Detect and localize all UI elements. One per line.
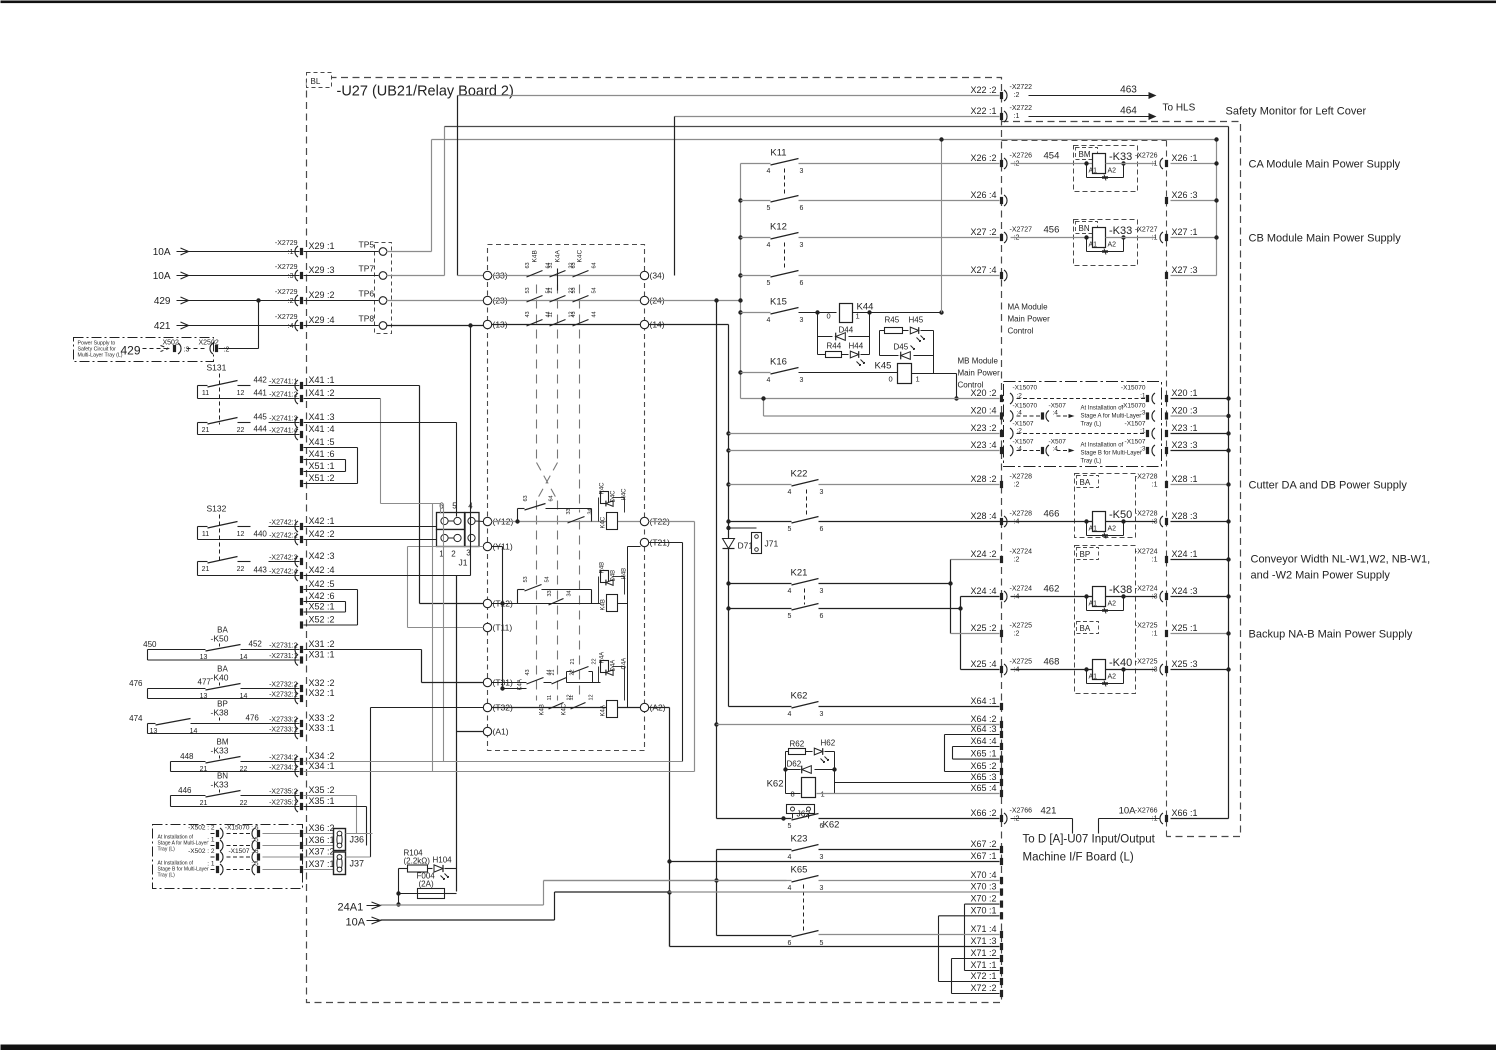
svg-text:K15: K15 xyxy=(770,297,787,308)
svg-text:-K38: -K38 xyxy=(1109,584,1132,596)
svg-text:K4B: K4B xyxy=(540,704,546,715)
svg-text:-X1507: -X1507 xyxy=(1125,439,1146,446)
wire T32 left riser down to J37 xyxy=(371,707,484,709)
svg-text:D4A: D4A xyxy=(611,660,617,672)
svg-text::4: :4 xyxy=(1014,519,1020,526)
K4B contact 11-12 on T32 xyxy=(549,703,564,710)
svg-text:-X2731:1: -X2731:1 xyxy=(269,653,298,660)
svg-text:22: 22 xyxy=(237,427,245,434)
svg-text:TP6: TP6 xyxy=(359,289,375,299)
wire X42:4 riser to 421 row xyxy=(304,575,471,577)
svg-text:R44: R44 xyxy=(827,342,842,351)
row X65:2 xyxy=(945,771,1000,773)
svg-text:K45: K45 xyxy=(875,361,892,372)
svg-text:11: 11 xyxy=(569,695,575,701)
svg-text:X70 :3: X70 :3 xyxy=(970,882,996,892)
svg-text:454: 454 xyxy=(1044,151,1060,162)
svg-text:4: 4 xyxy=(767,377,771,384)
svg-text:4: 4 xyxy=(767,242,771,249)
svg-text:-X502 : 2: -X502 : 2 xyxy=(188,848,215,855)
wire X42:2 to J1 pin2 xyxy=(304,539,437,541)
bus A2 rail dots xyxy=(667,859,671,863)
svg-text:-X2725: -X2725 xyxy=(1135,623,1158,630)
svg-text:X28 :3: X28 :3 xyxy=(1172,511,1198,521)
svg-text:CA Module Main Power Supply: CA Module Main Power Supply xyxy=(1249,159,1401,171)
svg-text:-X2741:3: -X2741:3 xyxy=(269,416,298,423)
row X66:2 jumper J62 contact K62 5-6 xyxy=(717,818,792,820)
svg-text:(A1): (A1) xyxy=(493,727,509,737)
svg-text:K16: K16 xyxy=(770,357,787,368)
svg-text:-X15070: -X15070 xyxy=(1013,385,1038,392)
svg-text:X32 :2: X32 :2 xyxy=(309,678,335,688)
svg-text:D44: D44 xyxy=(839,326,854,335)
wire X22:1 row from node 34 riser xyxy=(675,116,1000,118)
bus x1216 X26/X27 group xyxy=(1216,140,1218,276)
svg-text:X20 :4: X20 :4 xyxy=(970,406,996,416)
svg-text:21: 21 xyxy=(550,669,556,675)
svg-text:21: 21 xyxy=(202,427,210,434)
svg-text:-X15070: -X15070 xyxy=(1013,403,1038,410)
svg-text:4: 4 xyxy=(767,168,771,175)
svg-text:-X2742:2: -X2742:2 xyxy=(269,533,298,540)
svg-text:-X2741:1: -X2741:1 xyxy=(269,379,298,386)
connector X20:1 xyxy=(1165,395,1168,402)
svg-text:X37 :1: X37 :1 xyxy=(309,859,335,869)
contact K15 4-3 xyxy=(738,298,742,302)
svg-text:-X1507: -X1507 xyxy=(1013,421,1034,428)
svg-text:X26 :3: X26 :3 xyxy=(1172,190,1198,200)
coil box BM -K33 xyxy=(1074,146,1138,192)
svg-text:Main Power: Main Power xyxy=(958,369,1001,378)
mechanical linkage dashed verticals xyxy=(536,285,538,463)
riser X22:2 to node 33 xyxy=(457,96,459,276)
linkage crossing xyxy=(537,463,558,501)
svg-text:-K38: -K38 xyxy=(211,708,229,718)
svg-text:X23 :4: X23 :4 xyxy=(970,440,996,450)
svg-text:X26 :4: X26 :4 xyxy=(970,190,996,200)
svg-text:BN: BN xyxy=(1079,224,1090,233)
svg-text:X65 :1: X65 :1 xyxy=(970,749,996,759)
svg-text:448: 448 xyxy=(180,752,194,761)
svg-text:4: 4 xyxy=(767,317,771,324)
svg-text::1: :1 xyxy=(1152,161,1158,168)
svg-text:63: 63 xyxy=(525,262,531,268)
connector X26:1 xyxy=(1160,158,1163,169)
row A1 xyxy=(483,727,491,735)
row X23:4 xyxy=(726,448,730,452)
row X71:2 xyxy=(952,958,1000,960)
svg-text:3: 3 xyxy=(820,885,824,892)
svg-text:442: 442 xyxy=(254,376,268,385)
outer dashed boundary right xyxy=(1002,122,1241,837)
top rail y139 to right bus xyxy=(432,139,1217,141)
svg-text:-X2742:3: -X2742:3 xyxy=(269,555,298,562)
top rail y126 to far right bus xyxy=(445,126,1229,128)
bus 24-row down to X66:2 xyxy=(714,298,718,302)
svg-text:X66 :2: X66 :2 xyxy=(970,808,996,818)
svg-text:4: 4 xyxy=(788,588,792,595)
svg-text:54: 54 xyxy=(545,576,551,582)
contact K11 4-3 row X26:2 xyxy=(741,163,771,165)
svg-text:S132: S132 xyxy=(207,504,227,514)
K4A coil cluster R4A D4A C4A xyxy=(601,661,609,673)
svg-text:-X2742:4: -X2742:4 xyxy=(269,569,298,576)
K4C contact 43-44 xyxy=(573,320,589,327)
contact row 23-24 xyxy=(387,300,484,302)
svg-text:X42 :4: X42 :4 xyxy=(309,565,335,575)
wire X66:1 stub down xyxy=(1099,818,1161,820)
wire T11 left from riser xyxy=(408,627,484,629)
svg-text:D62: D62 xyxy=(787,760,802,769)
row T31 xyxy=(483,678,491,686)
jumper J36 xyxy=(334,829,346,851)
svg-text:-X502 : 2: -X502 : 2 xyxy=(188,825,215,832)
svg-text:X71 :1: X71 :1 xyxy=(970,960,996,970)
test point dashed box xyxy=(375,243,392,334)
svg-text:53: 53 xyxy=(523,576,529,582)
svg-text:H104: H104 xyxy=(433,856,453,865)
svg-text:-K33: -K33 xyxy=(1109,225,1132,237)
svg-text:-X507: -X507 xyxy=(1049,403,1067,410)
svg-text:BA: BA xyxy=(1080,478,1091,487)
svg-text:-K33: -K33 xyxy=(211,746,229,756)
K4B contact 43-44 xyxy=(527,320,543,327)
svg-text:X27 :2: X27 :2 xyxy=(970,227,996,237)
svg-text:X37 :2: X37 :2 xyxy=(309,847,335,857)
svg-text:X51 :2: X51 :2 xyxy=(309,473,335,483)
svg-text:33: 33 xyxy=(566,508,572,514)
svg-text:421: 421 xyxy=(154,321,171,332)
wire T22 down-right bus xyxy=(649,521,695,523)
svg-text:BP: BP xyxy=(1080,550,1091,559)
svg-text:31: 31 xyxy=(548,262,554,268)
svg-text:-X507: -X507 xyxy=(1049,439,1067,446)
svg-text:K11: K11 xyxy=(770,148,786,159)
svg-text:X29 :4: X29 :4 xyxy=(309,315,335,325)
svg-text:-X2722: -X2722 xyxy=(1010,105,1033,112)
contact K12 5-6 row X27:4 xyxy=(738,273,742,277)
row Y12 xyxy=(483,517,491,525)
svg-text:(34): (34) xyxy=(650,271,665,281)
svg-text:Safety Monitor for Left Cover: Safety Monitor for Left Cover xyxy=(1226,106,1367,118)
svg-text:K62: K62 xyxy=(823,820,840,831)
row X67:1 xyxy=(670,861,1000,863)
svg-text:21: 21 xyxy=(548,287,554,293)
node (23) xyxy=(483,296,491,304)
svg-text:-X2725: -X2725 xyxy=(1135,659,1158,666)
svg-text:X35 :1: X35 :1 xyxy=(309,796,335,806)
svg-text:K4C: K4C xyxy=(562,703,568,715)
svg-text:X20 :1: X20 :1 xyxy=(1172,388,1198,398)
svg-text:A1: A1 xyxy=(1089,168,1098,175)
svg-text:53: 53 xyxy=(525,287,531,293)
svg-text:-X2724: -X2724 xyxy=(1010,549,1033,556)
row Y11 xyxy=(483,542,491,550)
svg-text:TP7: TP7 xyxy=(359,264,375,274)
K4A contact 21-22 on T31 xyxy=(552,678,567,685)
svg-text:456: 456 xyxy=(1044,225,1060,236)
svg-text:0: 0 xyxy=(827,312,831,321)
svg-text:466: 466 xyxy=(1044,509,1060,520)
row X70:1 xyxy=(939,915,1000,917)
row T12 xyxy=(483,599,491,607)
svg-text:44: 44 xyxy=(592,311,598,317)
svg-text:X22 :2: X22 :2 xyxy=(970,85,996,95)
K4A contact 21-22 upper bump xyxy=(566,672,568,683)
svg-text:J37: J37 xyxy=(350,858,365,868)
svg-text:-X2734:2: -X2734:2 xyxy=(269,755,298,762)
svg-text:468: 468 xyxy=(1044,657,1060,668)
svg-text:D4C: D4C xyxy=(611,490,617,503)
row X51:2 xyxy=(300,480,303,487)
K4C contact 63-64 xyxy=(573,271,589,278)
svg-text:-X2726: -X2726 xyxy=(1010,153,1033,160)
svg-text:445: 445 xyxy=(254,413,268,422)
svg-text:2: 2 xyxy=(451,550,456,559)
coil box BP/BA K38 K40 xyxy=(1075,546,1136,694)
svg-text:450: 450 xyxy=(143,640,157,649)
svg-text:22: 22 xyxy=(237,566,245,573)
svg-text:BM: BM xyxy=(1079,150,1091,159)
svg-text:10A: 10A xyxy=(1119,806,1137,817)
contact S131 21-22 row X41:3 xyxy=(198,422,208,424)
K4A contact 43-44 on T31 xyxy=(527,678,544,685)
svg-text:A2: A2 xyxy=(1108,601,1117,608)
svg-text:K4B: K4B xyxy=(601,599,607,610)
svg-text::1: :1 xyxy=(1014,113,1020,120)
svg-text:Main Power: Main Power xyxy=(1008,315,1051,324)
svg-text::4: :4 xyxy=(1053,410,1059,417)
coil K50 xyxy=(1084,519,1088,523)
svg-text:X24 :2: X24 :2 xyxy=(970,549,996,559)
svg-text:5: 5 xyxy=(788,613,792,620)
svg-text:6: 6 xyxy=(800,205,804,212)
wire TP7 up to top rail xyxy=(387,275,445,277)
svg-text:-X2732:2: -X2732:2 xyxy=(269,682,298,689)
row X41:6 xyxy=(300,456,303,463)
row X72:1 xyxy=(939,981,1000,983)
riser K45 to X20:2 xyxy=(934,373,957,375)
contact row 33-34 xyxy=(458,275,484,277)
svg-text:X64 :2: X64 :2 xyxy=(970,714,996,724)
row X71:1 xyxy=(965,970,1000,972)
node (T22) xyxy=(640,517,648,525)
svg-text:A1: A1 xyxy=(1089,242,1098,249)
svg-text:J1: J1 xyxy=(459,558,468,568)
MA module dashed box xyxy=(1002,140,1167,142)
K4C contact 33-34 on Y12 xyxy=(568,517,585,524)
svg-text:R4B: R4B xyxy=(600,562,606,574)
svg-text:K21: K21 xyxy=(791,568,808,579)
svg-text:K22: K22 xyxy=(791,469,808,480)
svg-text:-K50: -K50 xyxy=(211,634,229,644)
svg-text:(T11): (T11) xyxy=(493,623,513,633)
svg-text:K4A: K4A xyxy=(518,679,524,690)
row X25:2 xyxy=(951,633,1000,635)
row X41:5 xyxy=(300,444,303,451)
node (33) xyxy=(483,271,491,279)
svg-text:421: 421 xyxy=(1041,806,1057,817)
svg-text:(2.2kΩ): (2.2kΩ) xyxy=(404,857,431,866)
svg-text:-X2731:2: -X2731:2 xyxy=(269,643,298,650)
svg-text:X26 :1: X26 :1 xyxy=(1172,153,1198,163)
svg-text:X67 :2: X67 :2 xyxy=(970,839,996,849)
svg-text:6: 6 xyxy=(820,613,824,620)
svg-text:446: 446 xyxy=(178,786,192,795)
contact K65 6-5 row X71:4 xyxy=(717,935,792,937)
svg-text:X24 :4: X24 :4 xyxy=(970,586,996,596)
svg-text:X70 :2: X70 :2 xyxy=(970,894,996,904)
output wire 463 with arrow xyxy=(1029,95,1149,97)
svg-text:TP8: TP8 xyxy=(359,314,375,324)
svg-text:X31 :2: X31 :2 xyxy=(309,639,335,649)
svg-text:3: 3 xyxy=(800,377,804,384)
row X24:4 coil K38 xyxy=(961,596,1000,598)
svg-text:R4A: R4A xyxy=(600,652,606,664)
svg-text:-X2735:2: -X2735:2 xyxy=(269,789,298,796)
svg-text:-X2766: -X2766 xyxy=(1010,808,1033,815)
contact K22 5-6 row X28:4 xyxy=(726,519,730,523)
row X72:2 xyxy=(952,993,1000,995)
contact K21 4-3 xyxy=(726,581,730,585)
svg-text:-X2741:4: -X2741:4 xyxy=(269,428,298,435)
page top border bar xyxy=(1,1,1496,4)
wire node14 to right bus xyxy=(649,324,729,326)
svg-text:43: 43 xyxy=(525,669,531,675)
svg-text:5: 5 xyxy=(788,823,792,830)
svg-text:429: 429 xyxy=(154,296,171,307)
row X65:1 xyxy=(953,758,1000,760)
contact K16 4-3 xyxy=(738,370,742,374)
K4B coil cluster R4B D4B H4B xyxy=(601,571,609,583)
svg-text:X25 :1: X25 :1 xyxy=(1172,623,1198,633)
svg-text:A1: A1 xyxy=(1089,674,1098,681)
svg-text:476: 476 xyxy=(246,714,260,723)
svg-text:MA Module: MA Module xyxy=(1008,303,1049,312)
svg-text:X41 :6: X41 :6 xyxy=(309,449,335,459)
contact S131 11-12 row X41:1 xyxy=(198,385,208,387)
svg-text:11: 11 xyxy=(202,531,209,538)
wire 429 box to 429 row xyxy=(219,348,259,350)
row X64:4 xyxy=(953,746,1000,748)
contact K62 4-3 row X64:1 xyxy=(729,706,792,708)
svg-text:X27 :3: X27 :3 xyxy=(1172,265,1198,275)
node (24) xyxy=(640,296,648,304)
svg-text:At Installation of: At Installation of xyxy=(1081,406,1124,412)
svg-text:-X2732:1: -X2732:1 xyxy=(269,692,298,699)
connector J1 xyxy=(437,513,465,530)
svg-text:3: 3 xyxy=(820,588,824,595)
wire T21 down bus xyxy=(649,542,683,544)
svg-text::1: :1 xyxy=(1152,235,1158,242)
output wire 464 with arrow xyxy=(1029,116,1149,118)
svg-text:X28 :2: X28 :2 xyxy=(970,474,996,484)
wire X34:2 to T22 bus xyxy=(304,761,683,763)
K4B contact 33-34 on T12 xyxy=(549,599,564,606)
svg-text:-X2729: -X2729 xyxy=(275,264,298,271)
svg-text:5: 5 xyxy=(767,205,771,212)
svg-text:476: 476 xyxy=(129,679,143,688)
svg-text:-X1507: -X1507 xyxy=(1125,421,1146,428)
svg-text:X36 :2: X36 :2 xyxy=(309,823,335,833)
svg-text:-X1507: -X1507 xyxy=(1013,439,1034,446)
svg-text:4: 4 xyxy=(788,489,792,496)
svg-text:X70 :1: X70 :1 xyxy=(970,905,996,915)
svg-text:34: 34 xyxy=(588,508,594,514)
svg-text:X28 :1: X28 :1 xyxy=(1172,474,1198,484)
svg-text:H45: H45 xyxy=(909,316,924,325)
wire T12 left riser from X41:1 xyxy=(420,603,484,605)
svg-text:-K50: -K50 xyxy=(1109,509,1132,521)
svg-text:-X2728: -X2728 xyxy=(1010,474,1033,481)
svg-text:-X2741:2: -X2741:2 xyxy=(269,392,298,399)
connector X502 :3 xyxy=(143,346,169,352)
svg-text:444: 444 xyxy=(254,425,268,434)
diode D71 on bus xyxy=(726,526,730,530)
svg-text:-X2727: -X2727 xyxy=(1010,227,1033,234)
svg-text:X71 :4: X71 :4 xyxy=(970,924,996,934)
wire X42:1 to J1 pin1 xyxy=(304,526,437,528)
svg-text::4: :4 xyxy=(1053,446,1059,453)
contact S132 11-12 row X42:1 xyxy=(198,526,208,528)
svg-text:-X2728: -X2728 xyxy=(1135,474,1158,481)
svg-text:X22 :1: X22 :1 xyxy=(970,106,996,116)
svg-text:X70 :4: X70 :4 xyxy=(970,870,996,880)
row X25:4 coil K40 xyxy=(961,669,1000,671)
svg-text:CB Module Main Power Supply: CB Module Main Power Supply xyxy=(1249,233,1402,245)
K4C coil cluster R4C D4C H4C xyxy=(601,492,609,504)
relay K44 xyxy=(799,312,837,314)
board -U27 dashed outline xyxy=(307,78,1002,1003)
svg-text:24A1: 24A1 xyxy=(338,902,364,914)
coil bus T21-A2 inside box xyxy=(628,546,641,548)
svg-text:X24 :3: X24 :3 xyxy=(1172,586,1198,596)
svg-text:3: 3 xyxy=(800,317,804,324)
svg-text:X52 :2: X52 :2 xyxy=(309,615,335,625)
svg-text:-K33: -K33 xyxy=(1109,151,1132,163)
svg-text:X25 :3: X25 :3 xyxy=(1172,659,1198,669)
svg-text:462: 462 xyxy=(1044,584,1060,595)
svg-text:-X2729: -X2729 xyxy=(275,289,298,296)
svg-text:X71 :3: X71 :3 xyxy=(970,936,996,946)
svg-text:K23: K23 xyxy=(791,834,808,845)
K4B contact 53-54 xyxy=(527,296,543,303)
riser J1 pin5 from X41:3 xyxy=(456,423,458,517)
svg-text:D45: D45 xyxy=(894,343,909,352)
row X52:2 xyxy=(300,621,303,628)
svg-text:and -W2 Main Power Supply: and -W2 Main Power Supply xyxy=(1251,570,1391,582)
svg-text::3: :3 xyxy=(1152,667,1158,674)
K4B contact 63-64 on Y12 bump xyxy=(517,509,519,522)
svg-text:X24 :1: X24 :1 xyxy=(1172,549,1198,559)
X1507 option dash-dot box xyxy=(1004,382,1162,467)
svg-text:K4A: K4A xyxy=(601,705,607,716)
svg-text:-X2725: -X2725 xyxy=(1010,623,1033,630)
svg-text:4: 4 xyxy=(788,854,792,861)
row X51:1 xyxy=(300,468,303,475)
svg-text:4: 4 xyxy=(788,885,792,892)
wire T31 left riser from X31:2 xyxy=(422,682,484,684)
svg-text:H62: H62 xyxy=(821,739,836,748)
riser K44 to rail xyxy=(941,140,943,313)
svg-text:X71 :2: X71 :2 xyxy=(970,948,996,958)
svg-text::2: :2 xyxy=(1014,631,1020,638)
svg-text:X52 :1: X52 :1 xyxy=(309,602,335,612)
rows X36 X37 xyxy=(300,830,303,837)
riser fuse block to 24A1 xyxy=(398,869,400,905)
svg-text:Tray (L): Tray (L) xyxy=(1081,459,1102,465)
svg-text:-K33: -K33 xyxy=(211,780,229,790)
